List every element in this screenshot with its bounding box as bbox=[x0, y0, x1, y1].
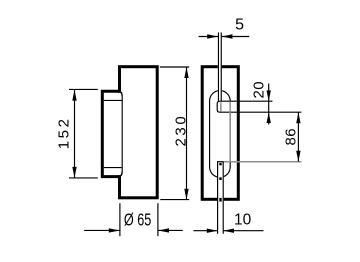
dimension 20 line bbox=[268, 84, 270, 125]
dimension 230 extension line bottom bbox=[160, 199, 189, 201]
svg-text:10: 10 bbox=[234, 211, 252, 228]
handle slot outline / dim 20 extension lines bbox=[217, 101, 301, 112]
handle slot white fill bbox=[217, 101, 236, 112]
dimension D65 arrow left-pointing bbox=[158, 228, 169, 232]
dimension D65 arrow right-pointing bbox=[109, 228, 120, 232]
hidden rod ghost in slot (gray) bbox=[220, 102, 222, 111]
dimension D65 line left bbox=[84, 229, 119, 231]
dimension 5 arrow right-pointing bbox=[207, 34, 218, 38]
slot obround outline bbox=[210, 91, 231, 178]
dim 86 bottom extension line (gray) bbox=[224, 161, 302, 163]
svg-text:86: 86 bbox=[282, 128, 299, 146]
centerline dash 1 bbox=[219, 163, 221, 165]
dimension 10 line left bbox=[193, 230, 217, 232]
centerline dash 2 bbox=[219, 177, 221, 180]
dimension 152 line bbox=[74, 90, 76, 178]
dimension 152 arrow up bbox=[72, 90, 76, 101]
boss corner fillet top bbox=[119, 91, 122, 97]
dimension 152 extension line top bbox=[69, 88, 98, 90]
dimension 230 extension line top bbox=[160, 66, 189, 68]
dimension 20 arrow up-pointing bbox=[267, 112, 271, 123]
dimension D65 line right bbox=[158, 229, 183, 231]
svg-text:230: 230 bbox=[172, 114, 189, 147]
dimension 5 line right bbox=[222, 36, 250, 38]
spindle rod 5mm right line bbox=[220, 33, 222, 102]
centerline dash 3 bbox=[219, 198, 221, 202]
svg-text:20: 20 bbox=[250, 81, 267, 99]
boss corner fillet bottom bbox=[119, 171, 122, 177]
dimension 86 line bbox=[297, 112, 299, 161]
dimension 152 arrow down bbox=[72, 167, 76, 178]
boss tangent line top bbox=[104, 99, 122, 101]
dimension 230 line bbox=[186, 67, 188, 199]
dimension 5 arrow left-pointing bbox=[222, 34, 233, 38]
key rod 10mm cap bbox=[217, 161, 224, 163]
dimension 86 arrow down bbox=[296, 151, 300, 162]
hidden slot right side (gray) bbox=[229, 102, 231, 162]
plate body outline (front view) bbox=[202, 67, 238, 200]
dimension 230 arrow down bbox=[184, 189, 188, 200]
dimension 10 arrow right-pointing bbox=[207, 229, 218, 233]
svg-text:5: 5 bbox=[235, 16, 244, 33]
plate body outline (left view) bbox=[120, 67, 158, 198]
key rod 10mm left line bbox=[217, 162, 219, 234]
boss right edge thin line bbox=[121, 97, 123, 171]
dimension 230 arrow up bbox=[184, 67, 188, 78]
boss tangent line bottom bbox=[104, 167, 122, 169]
boss white fill covering plate edge bbox=[104, 93, 123, 175]
dimension 10 arrow left-pointing bbox=[223, 229, 234, 233]
dimension 10 line right bbox=[223, 230, 263, 232]
spindle rod 5mm white fill bbox=[218, 33, 222, 102]
key rod 10mm white fill bbox=[217, 161, 224, 234]
svg-text:152: 152 bbox=[55, 116, 72, 149]
key rod 10mm right line bbox=[222, 162, 224, 234]
dimension 152 extension line bottom bbox=[69, 177, 98, 179]
svg-text:Ø 65: Ø 65 bbox=[124, 209, 152, 229]
dimension 20 arrow down-pointing bbox=[267, 90, 271, 101]
dimension 5 line left bbox=[199, 36, 218, 38]
dimension D65 extension line right bbox=[157, 203, 159, 236]
dimension 86 arrow up bbox=[296, 112, 300, 123]
dimension D65 extension line left bbox=[119, 203, 121, 236]
spindle rod 5mm left line bbox=[217, 33, 219, 102]
boss outline (cylinder side view) bbox=[102, 91, 119, 176]
